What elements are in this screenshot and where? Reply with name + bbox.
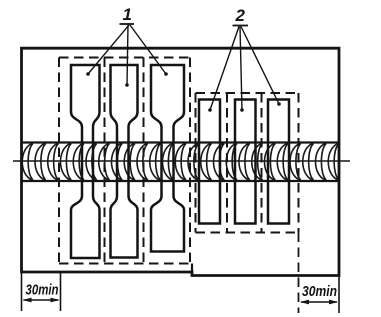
label 1 leader to S2 [125, 25, 129, 87]
cutting dashed line between specimen R2 and R3 [261, 93, 263, 233]
svg-text:30min: 30min [26, 282, 59, 299]
solid edge of discard strip at x=192 [191, 264, 193, 276]
label 1 leader to S3 [130, 25, 168, 76]
weld bead ripple arcs [22, 144, 339, 181]
weld centerline [13, 160, 350, 162]
cutting dashed line between specimen R1 and R2 [226, 93, 228, 233]
right dimension arrow [300, 300, 338, 305]
svg-text:2: 2 [235, 6, 246, 25]
label 2 underline bar [233, 25, 249, 27]
left dimension extension line at plate edge [21, 271, 23, 311]
right dimension extension line at plate edge [338, 276, 340, 314]
weld seam bottom edge [22, 180, 340, 182]
tensile specimen S3 [151, 65, 184, 252]
tensile specimen S2 [111, 65, 138, 258]
left dimension extension line at 30min [60, 271, 62, 311]
left dimension arrow [23, 298, 60, 303]
right dimension dashed extension line [298, 233, 300, 314]
cutting dashed line between specimen 1 and 2 [104, 58, 106, 264]
label 2 leader to R3 [241, 27, 281, 106]
svg-text:1: 1 [123, 5, 132, 24]
group 2 blank dashed boundary box [196, 93, 299, 233]
label 1 leader to S1 [86, 25, 129, 76]
weld seam top edge [22, 141, 340, 143]
cutting dashed line between specimen 2 and 3 [143, 58, 145, 264]
bend specimen R2 [235, 100, 256, 224]
label 1 underline bar [120, 23, 135, 25]
label 2 leader to R1 [208, 27, 239, 112]
group 1 blank dashed boundary box [59, 58, 192, 264]
bend specimen R3 [268, 100, 289, 224]
label 2 leader to R2 [240, 27, 244, 112]
bend specimen R1 [199, 100, 220, 224]
tensile specimen S1 [71, 65, 100, 258]
plate outline [22, 48, 340, 275]
svg-text:30min: 30min [302, 283, 337, 300]
